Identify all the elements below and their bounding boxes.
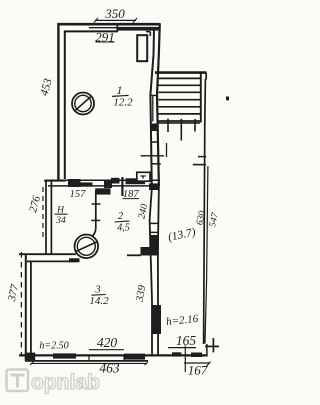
right end vertical — [206, 344, 208, 357]
partition between H and 2 — [92, 190, 96, 237]
room1 label 1/12.2 — [113, 83, 133, 109]
L-mark horizontal — [205, 345, 219, 347]
dashed line 276 — [42, 187, 44, 240]
short dash on line A — [198, 156, 206, 158]
door threshold line — [141, 155, 165, 157]
window rung right wall y165 — [152, 163, 161, 165]
bottom wall black segment left — [53, 353, 76, 358]
boundary line B — [205, 166, 208, 344]
dimension 167 tick — [206, 362, 211, 368]
paper background — [0, 0, 229, 405]
dimension 350 text — [104, 6, 125, 21]
flue rectangle in room1 — [137, 35, 147, 61]
wall black segment E — [126, 178, 146, 184]
stray mark right edge — [226, 97, 229, 101]
window rung room1 right wall top — [150, 94, 157, 96]
wall: room3 top inner — [27, 260, 75, 262]
wall: room3 left outer — [25, 255, 27, 361]
wall: step between room1 and H — [44, 180, 65, 182]
wall black segment D — [111, 178, 120, 184]
wall thick stub left of circle2 — [69, 258, 80, 262]
svg-text:34: 34 — [55, 216, 66, 226]
stove circle room1 outer — [72, 93, 94, 115]
stove circle 2 diagonal — [76, 242, 98, 252]
stair tick 3 — [194, 119, 196, 132]
dimension 350 line — [95, 19, 136, 21]
partition tick 1 — [92, 203, 101, 205]
room 2 label — [117, 211, 130, 234]
watermark logo box — [7, 370, 29, 392]
svg-text:350: 350 — [104, 6, 125, 21]
boundary line A (13.7 area) — [204, 79, 206, 344]
partition tick 2 — [91, 219, 100, 221]
stove circle 2 inner — [77, 237, 95, 255]
room 3 label — [89, 285, 109, 308]
wall black segment A — [68, 179, 81, 187]
dimension 187 text — [123, 189, 140, 200]
small tick below stairs — [166, 143, 168, 157]
dimension 463 text — [99, 361, 120, 376]
svg-text:h=2.50: h=2.50 — [39, 341, 68, 352]
wall: room1 top inner — [65, 30, 118, 32]
svg-text:opnlab: opnlab — [31, 371, 100, 394]
wall: room H left inner — [50, 182, 52, 255]
dimension 420 text — [97, 335, 118, 350]
bottom small block 2 — [191, 353, 202, 358]
svg-text:3: 3 — [94, 285, 100, 296]
window pane line room1 right wall — [152, 96, 154, 122]
wall black segment C — [104, 181, 112, 188]
right wall black segment below stairs — [151, 124, 158, 132]
right wall window rung 1 — [150, 222, 159, 224]
room H label — [55, 206, 66, 226]
area label (13.7) — [167, 226, 197, 244]
bottom wall black segment right — [124, 354, 145, 360]
window jamb top wall — [116, 24, 118, 32]
dimension 157 text — [70, 189, 87, 200]
bottom window jamb 1 — [88, 355, 90, 361]
wall: right wall of rooms (long) right line — [158, 186, 159, 356]
dimension 420 line — [89, 349, 124, 351]
L-mark vertical — [212, 338, 214, 352]
right wall black window block — [152, 305, 161, 334]
wall: building right inner (top) — [150, 29, 154, 186]
dimension 339 text (rotated) — [134, 284, 149, 304]
bottom small block 1 — [172, 352, 181, 356]
wall: bottom inner — [25, 360, 148, 362]
stove circle room1 diagonal — [76, 97, 92, 111]
dimension 547 text (rotated) — [208, 211, 221, 228]
dashed line 377 — [20, 252, 22, 356]
T-box symbol — [137, 172, 150, 181]
bottom-left corner black — [25, 353, 35, 362]
dimension 463 ticks — [30, 362, 148, 366]
stairs right edge — [200, 73, 202, 123]
wall: stairs top outer — [155, 71, 206, 74]
wall: building right outer (top) — [157, 23, 160, 186]
wall: bottom outer — [19, 354, 208, 356]
divider wall black block — [141, 247, 150, 256]
dimension 165 text — [176, 333, 197, 348]
stove circle 2 outer — [75, 235, 99, 259]
svg-text:167: 167 — [188, 363, 208, 378]
wall: middle top upper line — [46, 179, 160, 181]
stairs bottom ticked line — [158, 122, 200, 124]
room2/3 divider line — [127, 254, 141, 256]
svg-text:2: 2 — [118, 211, 124, 222]
wall: room1 top outer — [58, 23, 160, 26]
dimension 165 underline — [168, 347, 196, 349]
bottom window jamb 2 — [123, 355, 125, 361]
svg-text:14.2: 14.2 — [89, 295, 109, 307]
right wall black segment mid — [149, 235, 158, 256]
dimension 276 text (rotated) — [27, 194, 43, 214]
right wall window rung 2 — [150, 231, 159, 233]
extension line 165/167 — [184, 346, 186, 373]
T-box inner mark — [141, 176, 146, 179]
wall: top right thick band — [118, 27, 160, 31]
wall: room1 left inner — [64, 31, 66, 180]
corner connect above line A — [205, 73, 207, 80]
wall black segment B — [81, 182, 93, 186]
room H fraction line — [55, 213, 68, 215]
wall: room1 top inner right part — [146, 32, 150, 36]
dimension 240 text (rotated) — [136, 203, 150, 220]
stove circle room1 inner — [75, 95, 91, 111]
dimension 291 underline — [96, 41, 115, 43]
window pane line in top wall — [89, 27, 117, 29]
stair tick 2 — [180, 119, 182, 141]
svg-text:157: 157 — [70, 189, 87, 200]
wall black bar below — [95, 188, 110, 194]
stair treads — [158, 78, 201, 121]
room1 label fraction line — [112, 95, 129, 96]
dimension 167 text — [188, 363, 208, 378]
right wall black segment top — [149, 183, 160, 190]
dimension 463 line — [31, 362, 147, 364]
dimension 167 line — [184, 362, 210, 364]
svg-text:165: 165 — [176, 333, 197, 348]
wall: right wall of rooms (long) left line — [150, 186, 152, 356]
wall: room1 left outer — [57, 23, 59, 180]
dimension 187 underline — [123, 198, 140, 200]
dimension 453 text (rotated) — [39, 77, 55, 97]
svg-text:420: 420 — [97, 335, 118, 350]
wall: room3 left inner — [30, 261, 32, 355]
h=2.50 text — [39, 341, 68, 352]
h=2.16 text — [166, 313, 200, 328]
room 2 fraction line — [115, 221, 130, 222]
svg-text:4,5: 4,5 — [117, 223, 130, 234]
door jamb divider x122 — [121, 177, 123, 196]
room 3 fraction line — [91, 294, 105, 297]
svg-text:12.2: 12.2 — [113, 97, 133, 109]
dimension 291 text — [95, 30, 115, 45]
wall: room H left outer — [45, 181, 47, 255]
dimension 630 text (rotated) — [195, 210, 208, 226]
wall: middle top lower line — [48, 185, 150, 187]
svg-text:463: 463 — [99, 361, 120, 376]
window rung right wall y133 — [151, 141, 158, 143]
dimension 377 text (rotated) — [6, 283, 21, 303]
svg-text:1: 1 — [117, 83, 123, 97]
stub line — [193, 164, 206, 166]
wall: room3 top outer — [19, 253, 76, 255]
stair tick 1 — [167, 119, 169, 133]
